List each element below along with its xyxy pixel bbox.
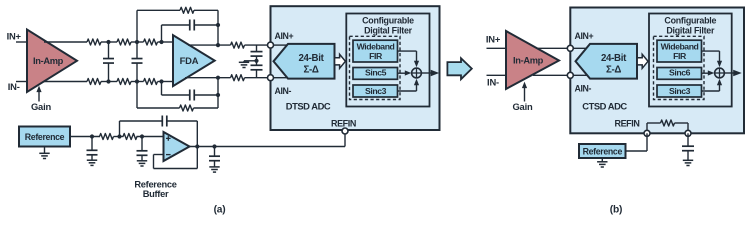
- svg-text:Sinc3: Sinc3: [365, 86, 387, 96]
- svg-text:IN+: IN+: [486, 34, 501, 45]
- svg-text:Gain: Gain: [512, 101, 533, 112]
- svg-text:AIN-: AIN-: [275, 86, 292, 96]
- svg-text:Wideband: Wideband: [357, 41, 395, 51]
- svg-text:Reference: Reference: [583, 147, 623, 157]
- svg-text:Sinc3: Sinc3: [669, 86, 691, 96]
- svg-text:AIN-: AIN-: [575, 84, 592, 94]
- svg-text:DTSD ADC: DTSD ADC: [286, 101, 331, 112]
- svg-text:FDA: FDA: [180, 55, 199, 66]
- svg-text:In-Amp: In-Amp: [513, 56, 544, 66]
- svg-text:Gain: Gain: [31, 101, 52, 112]
- svg-text:FIR: FIR: [673, 51, 687, 61]
- svg-text:REFIN: REFIN: [331, 119, 356, 129]
- svg-text:Digital Filter: Digital Filter: [364, 25, 413, 35]
- svg-text:AIN+: AIN+: [275, 31, 294, 41]
- svg-text:Sinc6: Sinc6: [669, 68, 691, 78]
- svg-text:24-Bit: 24-Bit: [601, 53, 627, 64]
- svg-text:Sinc5: Sinc5: [365, 68, 387, 78]
- svg-text:IN-: IN-: [8, 81, 20, 92]
- svg-text:24-Bit: 24-Bit: [298, 53, 324, 64]
- svg-text:Wideband: Wideband: [661, 41, 699, 51]
- svg-text:Reference: Reference: [25, 132, 65, 142]
- svg-text:AIN+: AIN+: [575, 31, 594, 41]
- svg-text:Buffer: Buffer: [143, 189, 169, 199]
- svg-text:IN-: IN-: [487, 76, 499, 87]
- svg-text:Σ-Δ: Σ-Δ: [606, 65, 621, 76]
- svg-text:REFIN: REFIN: [614, 119, 639, 129]
- svg-text:Configurable: Configurable: [664, 16, 716, 26]
- svg-text:Digital Filter: Digital Filter: [666, 25, 715, 35]
- svg-text:Configurable: Configurable: [362, 16, 414, 26]
- svg-text:(a): (a): [214, 205, 226, 216]
- svg-text:(b): (b): [610, 205, 622, 216]
- svg-text:IN+: IN+: [7, 31, 22, 42]
- svg-text:In-Amp: In-Amp: [33, 56, 64, 66]
- svg-text:CTSD ADC: CTSD ADC: [582, 101, 627, 112]
- svg-text:FIR: FIR: [369, 51, 383, 61]
- svg-text:Σ-Δ: Σ-Δ: [303, 65, 318, 76]
- svg-text:Reference: Reference: [134, 180, 176, 190]
